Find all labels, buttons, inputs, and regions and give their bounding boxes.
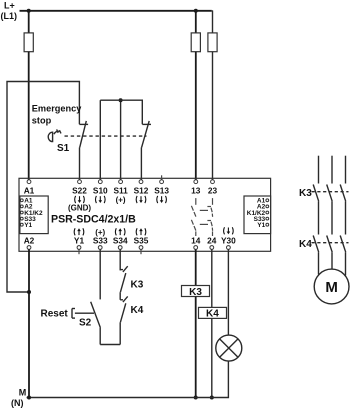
node junction A2 rail bbox=[27, 396, 31, 400]
three phase feeder wires bbox=[319, 156, 346, 184]
wire jumper S10-S11 to S1 channel 2 bbox=[100, 100, 142, 124]
svg-text:PSR-SDC4/2x1/B: PSR-SDC4/2x1/B bbox=[51, 214, 136, 226]
wire S34 down to K3 contact bbox=[119, 249, 121, 270]
node junction on L+ rail at fuse F2 bbox=[194, 9, 198, 13]
svg-text:M: M bbox=[19, 388, 27, 398]
mechanical link dashes between contacts bbox=[200, 210, 208, 224]
svg-text:23: 23 bbox=[208, 185, 218, 195]
svg-text:S12: S12 bbox=[134, 185, 149, 195]
svg-text:24: 24 bbox=[207, 235, 217, 245]
coil K4 box bbox=[199, 307, 227, 319]
svg-text:S10: S10 bbox=[93, 185, 108, 195]
wires K4 main to motor bbox=[319, 252, 346, 275]
svg-text:Y1: Y1 bbox=[74, 235, 85, 245]
svg-text:Y30: Y30 bbox=[221, 235, 236, 245]
terminal direction row bottom bbox=[74, 227, 233, 237]
node junction S11 jumper bbox=[119, 98, 123, 102]
svg-text:S33: S33 bbox=[93, 235, 108, 245]
relay module PSR-SDC4/2x1/B outline bbox=[19, 178, 271, 251]
svg-text:(+): (+) bbox=[116, 196, 126, 205]
node junction bypass to A2 wire bbox=[27, 290, 31, 294]
emergency stop actuator icon (mushroom head) bbox=[48, 129, 61, 141]
contactor K4 main contacts bbox=[313, 236, 346, 253]
wire top L+ rail bbox=[20, 10, 212, 12]
svg-text:S11: S11 bbox=[113, 185, 128, 195]
terminal direction row top bbox=[75, 196, 167, 205]
svg-text:L+: L+ bbox=[4, 1, 15, 11]
svg-text:K3: K3 bbox=[131, 279, 144, 290]
relay contact 13-14 (internal, dashed) bbox=[191, 198, 196, 236]
svg-text:S35: S35 bbox=[134, 235, 149, 245]
fuse F1 bbox=[24, 11, 33, 52]
svg-text:K4: K4 bbox=[206, 309, 219, 320]
terminal circles top row bbox=[27, 180, 214, 184]
wire coil K3 to bottom rail bbox=[195, 297, 197, 398]
node junction on L+ rail at fuse F1 bbox=[27, 9, 31, 13]
terminal labels top row bbox=[24, 185, 218, 195]
fuse F3 bbox=[208, 33, 217, 52]
wire U link S2 to K4 bbox=[100, 344, 120, 346]
svg-text:A2: A2 bbox=[24, 235, 35, 245]
relay contact 23-24 (internal, dashed) bbox=[207, 198, 212, 236]
svg-text:K4: K4 bbox=[131, 305, 144, 316]
svg-text:S1: S1 bbox=[57, 143, 70, 154]
wire emergency-stop bypass from A2 node up and across bbox=[7, 82, 79, 293]
node junction 14 rail bbox=[194, 396, 198, 400]
terminal stub Y1 bbox=[78, 249, 80, 254]
svg-text:Reset: Reset bbox=[41, 308, 69, 319]
coil K3 box bbox=[182, 286, 210, 298]
svg-text:(N): (N) bbox=[11, 398, 24, 408]
svg-text:K3: K3 bbox=[299, 188, 312, 199]
contactor K3 main contacts bbox=[313, 185, 346, 202]
status indicator box right bbox=[244, 196, 271, 234]
wire fuse F1 to terminal A1 bbox=[28, 52, 30, 180]
wire Y30 down to lamp bbox=[227, 249, 229, 335]
dashed link K3 main bbox=[312, 191, 349, 193]
node junction 24 rail bbox=[210, 396, 214, 400]
svg-text:A1: A1 bbox=[24, 185, 35, 195]
svg-text:K3: K3 bbox=[189, 287, 202, 298]
svg-text:14: 14 bbox=[191, 235, 201, 245]
dashed link K4 main bbox=[312, 242, 349, 244]
relay contact K4 (NC feedback) bbox=[120, 296, 128, 344]
terminal labels bottom row bbox=[24, 235, 236, 245]
switch S1 contact channel 2 (NC) bbox=[141, 121, 151, 180]
terminal stub S13 bbox=[161, 175, 163, 180]
label Emergency stop bbox=[32, 104, 82, 126]
svg-text:Emergency: Emergency bbox=[32, 104, 82, 114]
wires between K3 and K4 main contacts bbox=[319, 201, 346, 234]
wire coil K4 to bottom rail bbox=[211, 318, 213, 397]
svg-text:(L1): (L1) bbox=[1, 11, 18, 21]
svg-text:M: M bbox=[325, 279, 338, 296]
wire S33 down to reset button bbox=[99, 249, 101, 299]
wire A2 to bottom rail bbox=[28, 249, 30, 397]
svg-text:S13: S13 bbox=[154, 185, 169, 195]
wire S11 riser bbox=[120, 100, 122, 180]
svg-text:13: 13 bbox=[191, 185, 201, 195]
return rail M (N) label bbox=[11, 388, 26, 408]
svg-text:S2: S2 bbox=[79, 318, 92, 329]
svg-text:stop: stop bbox=[32, 116, 52, 126]
terminal stub S35 bbox=[140, 249, 142, 254]
switch S2 reset (NO) bbox=[91, 302, 101, 345]
relay contact K3 (NC feedback) bbox=[120, 266, 128, 300]
svg-text:Y1: Y1 bbox=[257, 222, 265, 229]
status indicator box left bbox=[20, 196, 48, 234]
switch S1 contact channel 1 (NC) bbox=[79, 121, 88, 180]
svg-text:S22: S22 bbox=[72, 185, 87, 195]
dashed mechanical link S1 bbox=[65, 135, 147, 137]
svg-text:Y1: Y1 bbox=[24, 222, 32, 229]
terminal circles bottom row bbox=[27, 246, 230, 250]
wire fuse F3 to terminal 23 bbox=[212, 52, 214, 181]
motor M1 bbox=[314, 269, 349, 304]
wire S10 jumper riser bbox=[99, 100, 101, 180]
fuse F2 bbox=[191, 11, 200, 52]
supply rail L+ (L1) label bbox=[1, 1, 18, 22]
svg-text:S34: S34 bbox=[113, 235, 128, 245]
wire 24 down to coil K4 bbox=[211, 249, 213, 307]
reset actuator plunger bbox=[72, 309, 94, 319]
wire 14 down to coil K3 bbox=[195, 249, 197, 285]
lamp H1 bbox=[216, 335, 242, 361]
wire lamp to bottom rail bbox=[27, 361, 229, 397]
wire 23 drop from rail end bbox=[211, 11, 214, 33]
svg-text:(GND): (GND) bbox=[68, 204, 91, 213]
wire fuse F2 to terminal 13 bbox=[195, 52, 197, 181]
svg-text:K4: K4 bbox=[299, 239, 312, 250]
